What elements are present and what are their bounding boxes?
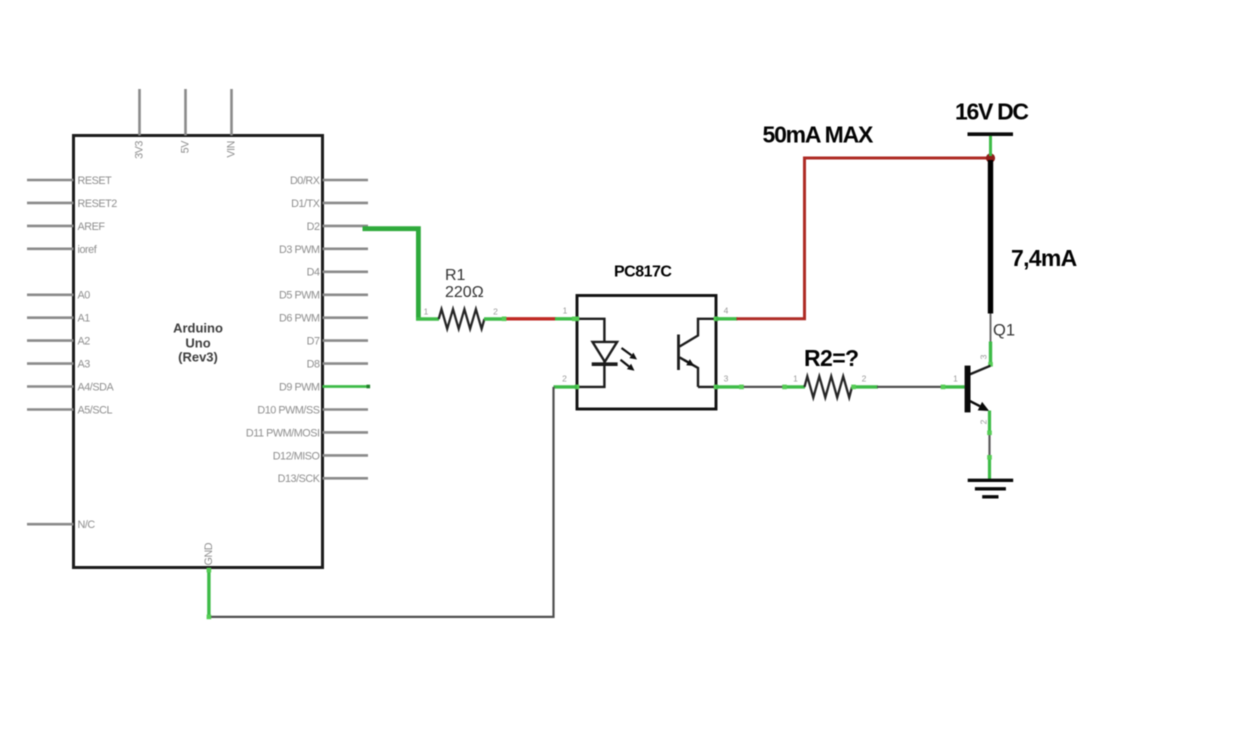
svg-text:D10 PWM/SS: D10 PWM/SS bbox=[257, 404, 319, 416]
svg-text:AREF: AREF bbox=[78, 221, 106, 233]
svg-text:A4/SDA: A4/SDA bbox=[78, 381, 115, 393]
svg-text:(Rev3): (Rev3) bbox=[178, 350, 218, 365]
svg-text:D9 PWM: D9 PWM bbox=[279, 381, 320, 393]
svg-text:Arduino: Arduino bbox=[173, 321, 223, 336]
svg-text:2: 2 bbox=[979, 419, 989, 424]
svg-text:GND: GND bbox=[203, 542, 215, 565]
svg-text:D12/MISO: D12/MISO bbox=[273, 450, 320, 462]
svg-text:R2=?: R2=? bbox=[804, 345, 858, 371]
svg-text:D4: D4 bbox=[307, 267, 320, 279]
svg-text:RESET: RESET bbox=[78, 175, 113, 187]
svg-text:D6 PWM: D6 PWM bbox=[279, 313, 320, 325]
svg-text:VIN: VIN bbox=[226, 141, 238, 158]
svg-text:D5 PWM: D5 PWM bbox=[279, 290, 320, 302]
svg-text:N/C: N/C bbox=[78, 519, 96, 531]
svg-text:50mA MAX: 50mA MAX bbox=[763, 122, 875, 148]
svg-text:D0/RX: D0/RX bbox=[290, 175, 320, 187]
svg-text:16V DC: 16V DC bbox=[955, 98, 1028, 124]
svg-text:D13/SCK: D13/SCK bbox=[278, 473, 321, 485]
svg-text:2: 2 bbox=[562, 374, 567, 384]
svg-text:D7: D7 bbox=[307, 336, 320, 348]
svg-text:RESET2: RESET2 bbox=[78, 198, 118, 210]
svg-text:A5/SCL: A5/SCL bbox=[78, 404, 113, 416]
svg-text:A1: A1 bbox=[78, 313, 91, 325]
svg-text:2: 2 bbox=[493, 306, 498, 316]
svg-text:A0: A0 bbox=[78, 290, 91, 302]
svg-text:Uno: Uno bbox=[185, 335, 210, 350]
svg-text:7,4mA: 7,4mA bbox=[1011, 245, 1077, 271]
svg-text:D8: D8 bbox=[307, 359, 320, 371]
svg-text:3V3: 3V3 bbox=[134, 141, 146, 159]
svg-text:1: 1 bbox=[424, 306, 429, 316]
svg-text:5V: 5V bbox=[180, 140, 192, 154]
svg-text:3: 3 bbox=[724, 374, 729, 384]
svg-text:220Ω: 220Ω bbox=[445, 284, 484, 301]
svg-text:D1/TX: D1/TX bbox=[291, 198, 320, 210]
svg-text:1: 1 bbox=[953, 374, 958, 384]
svg-text:Q1: Q1 bbox=[993, 321, 1015, 339]
svg-text:D11 PWM/MOSI: D11 PWM/MOSI bbox=[246, 427, 320, 439]
svg-text:PC817C: PC817C bbox=[614, 263, 672, 280]
svg-text:D3 PWM: D3 PWM bbox=[279, 244, 320, 256]
svg-text:ioref: ioref bbox=[78, 244, 98, 256]
svg-text:A3: A3 bbox=[78, 359, 91, 371]
svg-text:1: 1 bbox=[563, 306, 568, 316]
svg-text:2: 2 bbox=[862, 374, 867, 384]
svg-text:D2: D2 bbox=[307, 221, 320, 233]
svg-text:R1: R1 bbox=[445, 267, 466, 284]
svg-text:3: 3 bbox=[979, 354, 989, 359]
svg-text:1: 1 bbox=[793, 374, 798, 384]
svg-text:4: 4 bbox=[724, 306, 729, 316]
svg-text:A2: A2 bbox=[78, 336, 91, 348]
